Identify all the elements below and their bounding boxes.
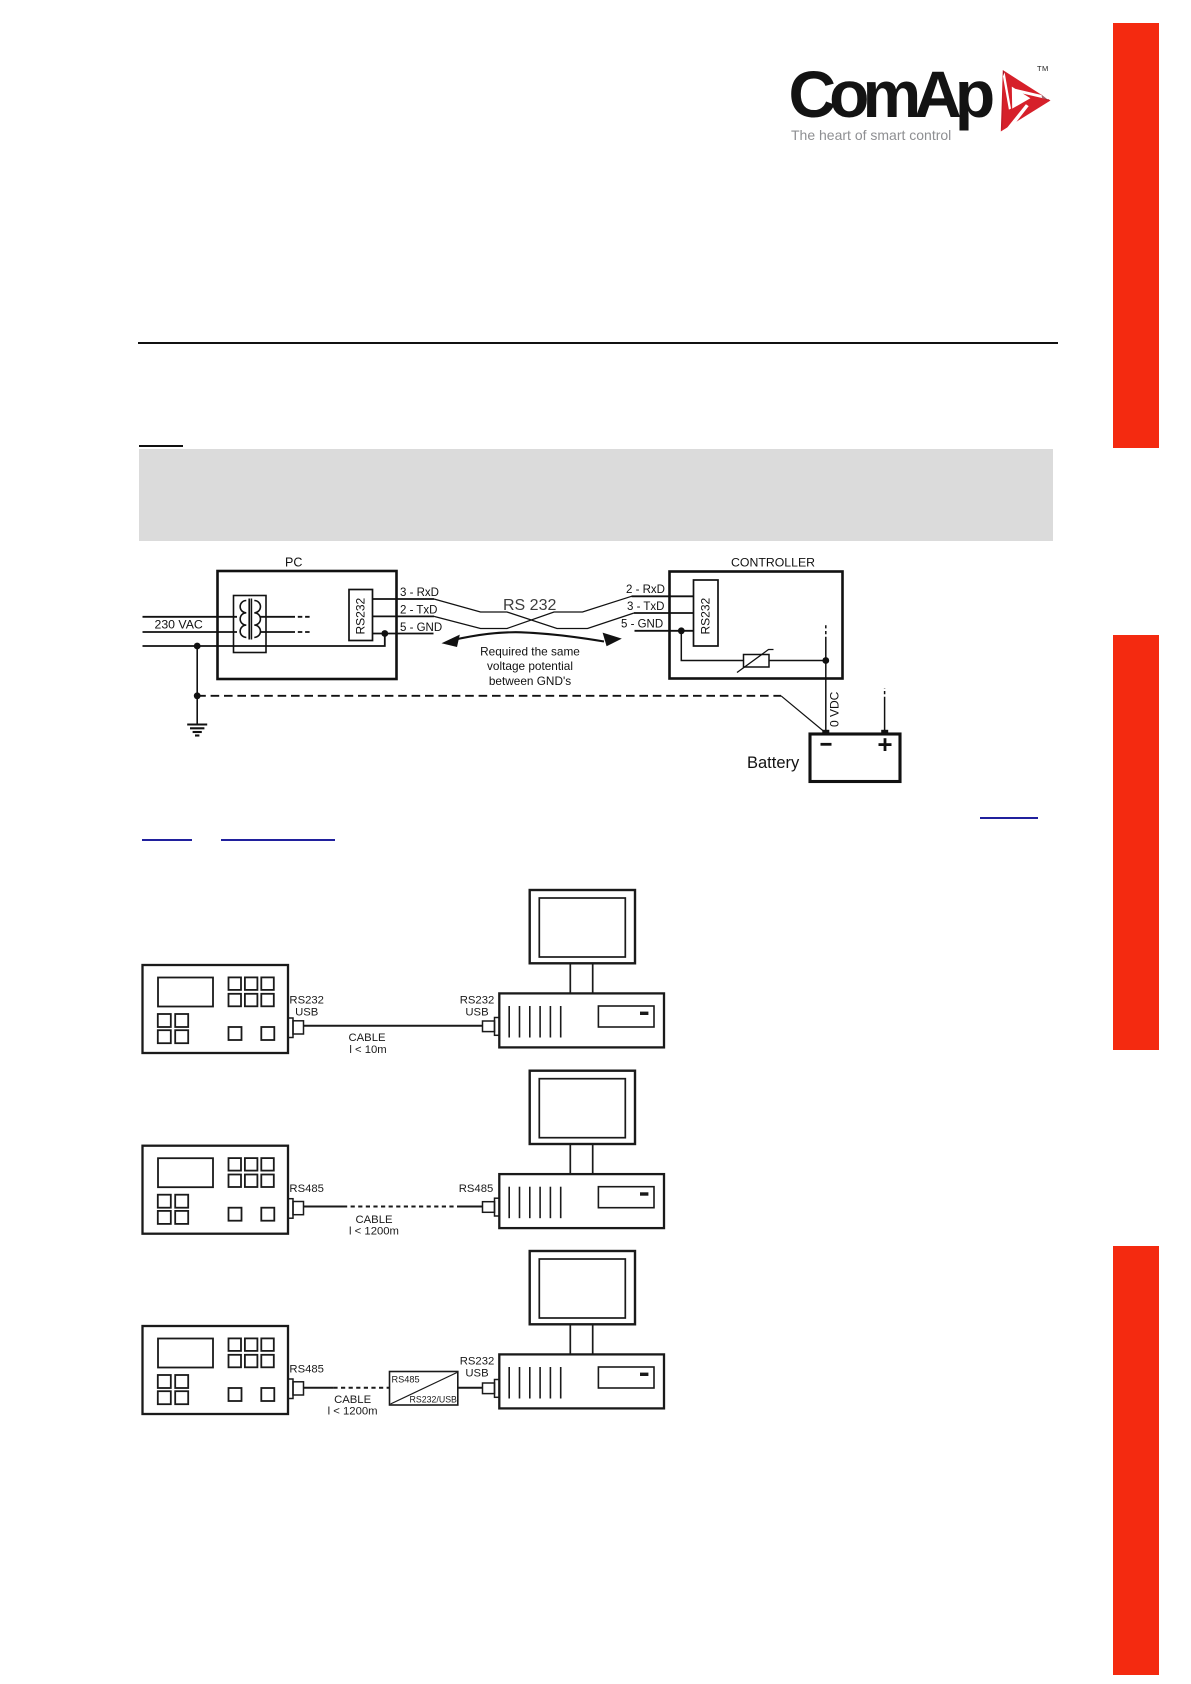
TM mark <box>1037 64 1049 73</box>
monitor stand D3 <box>569 1324 571 1354</box>
svg-text:RS485: RS485 <box>289 1363 324 1375</box>
wire 230VAC L1 <box>143 616 238 618</box>
note link underline (black) <box>139 445 183 447</box>
wire dashed stub secondary L2 <box>291 631 311 633</box>
vents D1 <box>509 1006 561 1038</box>
svg-text:RS232: RS232 <box>460 1356 495 1368</box>
svg-text:RS232: RS232 <box>354 597 368 634</box>
key single A D3 <box>229 1388 242 1401</box>
pc screen D1 <box>539 898 625 957</box>
monitor stand D1 <box>569 963 571 993</box>
logo tagline: The heart of smart control <box>791 128 1021 142</box>
wire crossover RxD-TxD <box>434 599 634 629</box>
keypad 2x3 D3 <box>229 1338 274 1367</box>
svg-text:RS485: RS485 <box>459 1183 494 1195</box>
node junction 0VDC <box>822 657 829 664</box>
svg-text:5 - GND: 5 - GND <box>400 622 442 634</box>
red sidebar bar 3 <box>1113 1246 1159 1675</box>
wire battery plus stub <box>884 700 886 734</box>
pc plug D2 <box>483 1202 495 1213</box>
pc plug D3 <box>483 1383 495 1394</box>
svg-text:USB: USB <box>465 1368 488 1380</box>
pc system unit D3 <box>499 1354 664 1408</box>
drive bay D3 <box>598 1367 654 1388</box>
svg-text:CABLE: CABLE <box>334 1394 372 1406</box>
svg-text:voltage potential: voltage potential <box>487 659 573 673</box>
wire pin3 TxD (controller) <box>634 612 694 614</box>
svg-text:CABLE: CABLE <box>348 1032 386 1044</box>
svg-text:l < 10m: l < 10m <box>349 1044 386 1056</box>
keypad 2x2 D2 <box>158 1195 188 1224</box>
grey note box <box>139 449 1053 541</box>
svg-text:3 - TxD: 3 - TxD <box>627 601 665 613</box>
svg-text:RS232/USB: RS232/USB <box>410 1395 458 1405</box>
cable D1 <box>304 1025 483 1027</box>
keypad 2x2 D3 <box>158 1375 188 1404</box>
cable converter to pc D3 <box>458 1387 483 1389</box>
horizontal rule <box>138 342 1058 344</box>
svg-text:230 VAC: 230 VAC <box>155 618 203 632</box>
svg-text:CONTROLLER: CONTROLLER <box>731 556 815 570</box>
wire pin2 TxD (PC) <box>373 615 435 617</box>
converter RS485 to RS232/USB <box>390 1372 458 1406</box>
svg-text:RS232: RS232 <box>460 995 495 1007</box>
transformer T1 (PC power supply) <box>234 596 291 653</box>
controller connector D2 <box>288 1199 293 1219</box>
key single B D3 <box>261 1388 274 1401</box>
pc screen D3 <box>539 1259 625 1318</box>
pc monitor D3 <box>530 1251 635 1324</box>
controller unit D3 <box>143 1326 289 1414</box>
wire crossover TxD-RxD <box>434 596 632 628</box>
RS232 port box (PC side) <box>349 590 373 641</box>
wire varistor to node <box>769 660 826 662</box>
node junction earth / dashed bus <box>194 692 201 699</box>
GND equalizing arrow (double headed) <box>442 632 622 647</box>
pc plug D1 <box>483 1021 495 1032</box>
svg-text:5 - GND: 5 - GND <box>621 619 663 631</box>
varistor <box>744 655 770 668</box>
monitor stand D2 <box>569 1144 571 1174</box>
wire GND to varistor <box>681 631 743 661</box>
cable D3 <box>304 1387 334 1389</box>
wire earth drop <box>196 646 198 724</box>
keypad 2x3 D1 <box>229 977 274 1006</box>
dashed equipotential bus <box>197 695 781 697</box>
svg-text:between GND's: between GND's <box>489 674 571 688</box>
svg-text:RS485: RS485 <box>392 1375 420 1385</box>
controller unit D1 <box>143 965 289 1053</box>
svg-text:USB: USB <box>465 1007 488 1019</box>
hyperlink underline bottom left 2 <box>221 839 335 841</box>
pc monitor D2 <box>530 1071 635 1144</box>
svg-text:2 - TxD: 2 - TxD <box>400 605 438 617</box>
wire pin3 RxD (PC) <box>373 598 435 600</box>
wire bus to battery minus <box>781 696 826 733</box>
wire pin5 GND (PC) <box>373 633 434 635</box>
keypad 2x3 D2 <box>229 1158 274 1187</box>
ComAp logo wordmark <box>789 61 1004 133</box>
cable D2 <box>304 1206 344 1208</box>
PC box <box>218 571 397 679</box>
hyperlink underline bottom left 1 <box>142 839 192 841</box>
svg-text:RS232: RS232 <box>289 995 324 1007</box>
key single B D2 <box>261 1208 274 1221</box>
wire 230VAC L2 <box>143 631 238 633</box>
wire 0VDC down to battery <box>825 661 827 735</box>
svg-text:USB: USB <box>295 1007 318 1019</box>
battery <box>810 734 900 782</box>
pc system unit D2 <box>499 1174 664 1228</box>
svg-text:3 - RxD: 3 - RxD <box>400 587 439 599</box>
key single A D2 <box>229 1208 242 1221</box>
svg-text:2 - RxD: 2 - RxD <box>626 584 665 596</box>
drive bay D2 <box>598 1187 654 1208</box>
drive bay D1 <box>598 1006 654 1027</box>
wire pin2 RxD (controller) <box>632 595 694 597</box>
ComAp triangle logo mark <box>997 66 1053 134</box>
key single A D1 <box>229 1027 242 1040</box>
svg-text:PC: PC <box>285 556 302 570</box>
key single B D1 <box>261 1027 274 1040</box>
controller connector D1 <box>288 1018 293 1038</box>
red sidebar bar 1 <box>1113 23 1159 448</box>
vents D3 <box>509 1367 561 1399</box>
svg-text:l < 1200m: l < 1200m <box>328 1406 378 1418</box>
wire stub up dashed <box>825 640 827 661</box>
keypad 2x2 D1 <box>158 1014 188 1043</box>
controller unit D2 <box>143 1146 289 1234</box>
svg-text:Required the same: Required the same <box>480 645 580 659</box>
display D2 <box>158 1158 213 1187</box>
controller connector D3 <box>288 1379 293 1399</box>
wire pin5 GND (controller) <box>635 630 694 632</box>
node junction GND pin5 controller <box>678 627 685 634</box>
svg-text:CABLE: CABLE <box>355 1214 393 1226</box>
svg-text:RS 232: RS 232 <box>503 597 556 614</box>
pc monitor D1 <box>530 890 635 963</box>
pc system unit D1 <box>499 993 664 1047</box>
svg-text:0 VDC: 0 VDC <box>828 691 842 727</box>
ground (earth) symbol <box>187 725 207 736</box>
wire dashed stub secondary L1 <box>291 616 311 618</box>
hyperlink underline top right <box>980 817 1038 819</box>
red sidebar bar 2 <box>1113 635 1159 1050</box>
svg-text:Battery: Battery <box>747 754 800 772</box>
node junction GND pin5 PC <box>381 630 388 637</box>
RS232 port box (controller side) <box>694 580 719 646</box>
display D1 <box>158 978 213 1007</box>
wire PE bottom <box>143 634 385 647</box>
display D3 <box>158 1339 213 1368</box>
svg-text:RS232: RS232 <box>699 597 713 634</box>
svg-text:RS485: RS485 <box>289 1183 324 1195</box>
pc screen D2 <box>539 1079 625 1138</box>
node junction PE / earth <box>194 643 201 650</box>
CONTROLLER box <box>670 572 843 679</box>
svg-text:l < 1200m: l < 1200m <box>349 1226 399 1238</box>
vents D2 <box>509 1187 561 1219</box>
